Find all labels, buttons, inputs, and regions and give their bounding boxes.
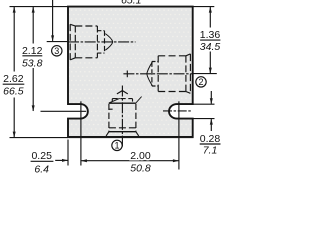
dimension text 2.12 over 53.8 bbox=[22, 45, 43, 70]
port 2 boss (right side, hidden dashed outline) bbox=[152, 54, 191, 93]
extension line: body top edge (left) bbox=[10, 6, 69, 8]
extension line: body bottom edge (left) bbox=[10, 137, 69, 139]
svg-text:34.5: 34.5 bbox=[200, 41, 221, 53]
dimension text 2.62 over 66.5 bbox=[3, 73, 25, 98]
port 1 boss (bottom center, hidden dashed outline) bbox=[106, 99, 139, 136]
svg-text:65.1: 65.1 bbox=[121, 0, 141, 6]
svg-text:7.1: 7.1 bbox=[203, 145, 218, 157]
svg-text:1: 1 bbox=[114, 141, 119, 151]
port 1 cone tip bbox=[117, 91, 128, 94]
port 1 chamfer diagonals bbox=[109, 98, 120, 103]
svg-text:3: 3 bbox=[54, 46, 59, 56]
port 1 thread top edge bbox=[109, 102, 136, 104]
dimension line (cropped at top) to port 3 centerline, down arrowhead bbox=[51, 0, 54, 41]
svg-text:0.28: 0.28 bbox=[200, 133, 221, 145]
svg-text:53.8: 53.8 bbox=[22, 57, 43, 69]
mounting slot left: vertical edge line bbox=[80, 101, 82, 137]
port 3 cone tip bbox=[105, 34, 113, 51]
dimension text 0.25 over 6.4 bbox=[31, 150, 54, 175]
svg-text:2.62: 2.62 bbox=[3, 73, 24, 85]
extension line: body top edge (right) bbox=[193, 6, 215, 8]
port 3 boss (upper left, hidden dashed outline) bbox=[70, 24, 104, 60]
dimension line 2.00 with arrowheads bbox=[81, 159, 179, 162]
dimension line 1.36 with arrowheads bbox=[209, 7, 212, 74]
mounting slot left: centerline bbox=[41, 110, 87, 112]
svg-text:6.4: 6.4 bbox=[34, 163, 49, 175]
body bottom edge (thick) bbox=[67, 137, 193, 139]
dimension 0.28: extension lines and outside arrowheads bbox=[193, 103, 215, 105]
svg-text:2.00: 2.00 bbox=[130, 150, 151, 162]
port 2 cone tip bbox=[147, 62, 153, 86]
svg-text:0.25: 0.25 bbox=[31, 150, 52, 162]
svg-text:2: 2 bbox=[198, 77, 203, 87]
svg-text:50.8: 50.8 bbox=[130, 163, 151, 175]
svg-text:2.12: 2.12 bbox=[22, 45, 43, 57]
svg-text:1.36: 1.36 bbox=[200, 29, 221, 41]
extension lines below body (left edge, left slot center, right slot center) bbox=[67, 140, 69, 166]
svg-text:66.5: 66.5 bbox=[3, 86, 24, 98]
port 3 centerline bbox=[47, 41, 68, 43]
valve body outline bbox=[68, 7, 193, 137]
dimension 0.25 leader arrow bbox=[55, 159, 68, 162]
dimension text 0.28 over 7.1 bbox=[200, 133, 221, 157]
port 1 centerline bbox=[121, 86, 123, 147]
dimension text 1.36 over 34.5 bbox=[200, 29, 221, 53]
dimension text 2.00 over 50.8 bbox=[130, 150, 151, 175]
port 2 centerline bbox=[123, 73, 192, 75]
mounting slot right: centerline bbox=[163, 110, 192, 112]
mounting slot right: vertical edge line bbox=[178, 101, 180, 137]
dimension line 2.12 with arrowheads bbox=[32, 7, 35, 112]
port number balloons 1, 2, 3 bbox=[52, 46, 207, 151]
port 1 thread bottom edge bbox=[109, 131, 136, 133]
dimension line 2.62 with arrowheads bbox=[13, 7, 16, 138]
